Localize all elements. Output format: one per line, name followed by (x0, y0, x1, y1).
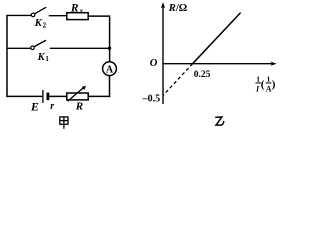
svg-text:x: x (79, 7, 84, 15)
graph line solid segment (193, 13, 241, 64)
svg-text:r: r (50, 101, 54, 112)
svg-text:R: R (70, 3, 79, 15)
graph x-axis (163, 63, 275, 65)
svg-text:0.25: 0.25 (194, 70, 211, 80)
svg-text:I: I (255, 85, 260, 94)
x-axis label 1/I (1/A) (255, 75, 276, 94)
wire: battery to rheostat (49, 95, 67, 97)
wire: rheostat to right rail (88, 95, 110, 97)
wire: bottom left segment to battery (6, 95, 42, 97)
wire: middle branch from K1 to right rail (50, 47, 110, 49)
svg-text:1: 1 (267, 75, 271, 84)
switch K1 pivot contact (31, 46, 35, 50)
svg-text:O: O (150, 58, 158, 69)
wire: middle branch from left rail to switch K1 (7, 47, 31, 49)
svg-text:–0.5: –0.5 (142, 94, 161, 105)
junction node dot (108, 47, 111, 50)
svg-text:K: K (34, 18, 43, 29)
svg-text:1: 1 (45, 55, 49, 63)
battery E short plate (47, 93, 50, 101)
svg-text:E: E (30, 99, 39, 113)
wire: top wire left segment to switch K2 (6, 14, 31, 16)
graph line dashed segment (163, 64, 193, 96)
svg-text:): ) (272, 79, 276, 91)
rheostat R arrow (68, 87, 85, 102)
svg-text:K: K (37, 52, 46, 63)
svg-text:R: R (75, 100, 83, 112)
wire: right vertical below ammeter (109, 76, 111, 98)
svg-text:1: 1 (256, 75, 260, 84)
caption 甲 (drawn glyph) (60, 117, 68, 129)
svg-text:R/Ω: R/Ω (168, 3, 187, 14)
switch K2 pivot contact (31, 13, 35, 17)
graph y-axis R/Ω (162, 4, 164, 104)
resistor Rx box (67, 13, 88, 20)
wire: top wire between K2 and Rx (49, 15, 67, 17)
svg-text:2: 2 (43, 22, 47, 30)
switch K1 blade (34, 40, 46, 46)
battery E long plate (42, 90, 44, 103)
wire: top wire right segment + right vertical down to ammeter (88, 16, 109, 62)
svg-text:(: ( (261, 79, 265, 91)
ammeter A1 (103, 62, 117, 76)
switch K2 blade (35, 7, 46, 14)
svg-text:A: A (106, 64, 114, 75)
caption 乙 (drawn glyph) (215, 117, 224, 125)
rheostat R box (67, 93, 88, 100)
wire: left vertical branch (6, 15, 8, 97)
